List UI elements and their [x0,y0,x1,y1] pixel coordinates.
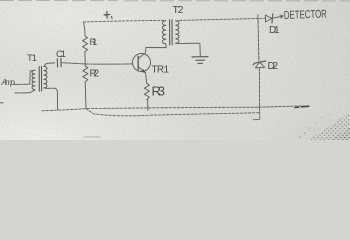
top scan border [0,0,350,2]
svg-text:D2: D2 [268,61,279,72]
transistor TR1 collector [138,47,146,58]
svg-text:T1: T1 [27,53,37,64]
wire bottom rail A [42,107,259,111]
wire T1 secondary top to C1 [44,63,55,67]
svg-text:R2: R2 [90,68,100,79]
transformer T2 secondary winding [176,21,179,44]
diode D1 [265,15,271,22]
wire bottom right stub [259,106,308,107]
wire C1 to divider junction [61,63,84,64]
resistor R2 [83,66,88,82]
svg-text:Amp: Amp [1,77,16,87]
svg-text:R3: R3 [152,84,166,99]
wire T2 secondary bottom to ground [176,43,201,56]
transformer T2 primary winding [163,21,166,44]
resistor R1 [83,36,88,52]
wire D2 branch vertical upper [257,21,260,61]
node left edge tick [0,102,3,104]
wire T2 primary bottom to collector [146,44,166,48]
wire base [85,63,132,65]
wire top rail [84,20,166,22]
transistor TR1 base bar [137,56,139,69]
wire R2 bottom to rail [84,82,87,109]
diode D1 cathode bar [271,14,274,23]
transformer T1 secondary winding [44,66,47,88]
wire R1 to R2 [84,52,86,66]
node D2 branch top [257,15,259,22]
svg-text:DETECTOR: DETECTOR [284,9,327,22]
wire D1 output arrow [272,15,283,18]
wire divider vertical top [84,22,85,36]
wire T1 secondary bottom branch [44,88,58,110]
svg-text:T2: T2 [173,4,184,16]
wire Amp upper lead [15,70,36,84]
transistor TR1 body [133,54,151,72]
transformer T2 core [170,20,173,45]
diode D2 cathode bar [253,61,266,65]
transformer T1 core [39,66,41,91]
label + supply [104,12,112,19]
transistor TR1 emitter [138,67,147,84]
scan speckles bottom right [299,111,350,140]
transformer T1 primary winding [32,70,35,90]
svg-text:D1: D1 [269,25,280,36]
ground [192,57,208,64]
diode D2 [255,62,264,68]
wire Amp lower lead [15,90,35,93]
smudge bottom [84,136,100,138]
svg-text:TR1: TR1 [152,64,170,75]
wire bottom rail B [86,109,259,116]
svg-text:C1: C1 [56,49,66,60]
paper background [0,0,350,140]
wire T2 secondary top to D1 [176,18,267,21]
capacitor C1 [57,59,61,67]
wire D2 branch vertical lower [253,68,260,120]
wire R3 bottom to rail [147,100,149,111]
wire bottom right stub dark tip [295,106,309,107]
svg-text:R1: R1 [90,37,98,48]
transistor TR1 emitter arrow [142,70,145,73]
resistor R3 [144,83,149,99]
